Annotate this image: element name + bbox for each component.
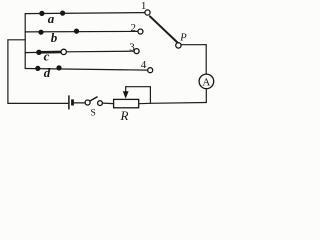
terminal dot d-right [56, 65, 61, 70]
terminal dot b-left [38, 30, 43, 35]
svg-text:1: 1 [141, 0, 147, 12]
switch S contact left (open circle) [85, 100, 90, 105]
wire right vertical lower (ammeter to bottom corner) [205, 89, 207, 103]
terminal dot a-left [39, 11, 44, 16]
wire branch a [25, 13, 145, 14]
resistance wire c (thick segment) [39, 51, 64, 54]
wire slider loop right vertical [149, 87, 151, 104]
terminal dot c-left [36, 50, 41, 55]
wire left outer vertical [7, 40, 9, 104]
svg-text:2: 2 [130, 22, 136, 34]
ammeter A [199, 74, 214, 89]
contact P (open circle) [176, 43, 181, 48]
svg-text:P: P [179, 33, 187, 44]
svg-text:d: d [44, 65, 51, 80]
wire battery to left corner [8, 102, 68, 104]
switch S blade [90, 97, 98, 101]
svg-text:b: b [51, 30, 58, 45]
svg-text:a: a [48, 11, 55, 26]
terminal c-right (open circle) [61, 49, 66, 54]
svg-text:4: 4 [141, 59, 147, 71]
wire slider loop top [126, 86, 151, 88]
wire switch to battery [74, 102, 85, 104]
terminal dot b-right [74, 29, 79, 34]
wire branch c thin left [25, 51, 39, 53]
wire left link to bus [8, 39, 25, 41]
terminal dot d-left [35, 66, 40, 71]
terminal 2 (open circle) [138, 29, 143, 34]
terminal 4 (open circle) [148, 68, 153, 73]
rheostat slider arrowhead [123, 91, 129, 98]
battery short plate (-) [71, 99, 74, 105]
wire branch b [25, 30, 138, 33]
rheostat R body [114, 99, 139, 107]
svg-text:3: 3 [129, 41, 135, 53]
svg-text:S: S [91, 109, 96, 119]
wire branch d [25, 69, 148, 71]
wire rheostat left lead [103, 102, 114, 105]
svg-text:c: c [44, 49, 50, 64]
terminal dot a-right [60, 11, 65, 16]
svg-text:R: R [120, 108, 129, 123]
wire right vertical upper [205, 45, 207, 74]
wire from P contact to right vertical [181, 44, 206, 46]
wire left bus vertical [24, 14, 26, 69]
terminal 3 (open circle) [134, 49, 139, 54]
wire slider arrow stem [125, 87, 127, 92]
battery long plate (+) [68, 95, 70, 109]
terminal 1 (open circle) [145, 10, 150, 15]
svg-text:A: A [202, 76, 210, 88]
switch S contact right (open circle) [98, 101, 103, 106]
wire blade from terminal 1 to P (selector arm) [150, 16, 177, 42]
wire branch c thin right [66, 50, 134, 53]
wire bottom right [139, 103, 206, 104]
